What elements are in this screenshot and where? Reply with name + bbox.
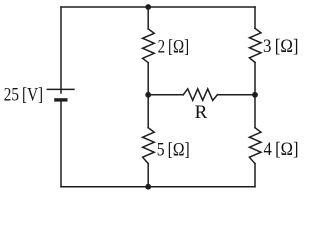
svg-text:4 [Ω]: 4 [Ω] bbox=[264, 139, 299, 160]
wire right vertical top segment bbox=[254, 7, 256, 28]
svg-text:5 [Ω]: 5 [Ω] bbox=[157, 140, 190, 161]
wire middle vertical mid segment bbox=[147, 63, 149, 128]
wire top horizontal bbox=[61, 6, 255, 8]
battery E positive plate (long thin) bbox=[47, 88, 75, 90]
svg-text:3 [Ω]: 3 [Ω] bbox=[263, 36, 299, 57]
wire middle row right segment bbox=[217, 94, 255, 96]
resistor 4 ohm zigzag bbox=[249, 128, 261, 164]
svg-text:R: R bbox=[195, 102, 208, 123]
wire middle row left segment bbox=[148, 94, 183, 96]
svg-text:25 [V]: 25 [V] bbox=[4, 84, 43, 105]
wire middle vertical bottom segment bbox=[147, 164, 149, 187]
wire left vertical upper (into battery) bbox=[60, 7, 62, 93]
resistor 5 ohm zigzag bbox=[143, 128, 155, 164]
wire bottom horizontal bbox=[61, 186, 255, 188]
node middle junction left bbox=[145, 92, 151, 98]
battery E negative plate (short thick) bbox=[54, 98, 67, 101]
resistor R zigzag bbox=[183, 89, 217, 101]
wire left vertical lower (from battery to bottom) bbox=[60, 102, 62, 187]
svg-text:2 [Ω]: 2 [Ω] bbox=[158, 37, 190, 58]
node top middle bbox=[145, 4, 151, 10]
node bottom middle bbox=[145, 184, 151, 190]
resistor 2 ohm zigzag bbox=[143, 29, 155, 63]
node middle junction right bbox=[252, 92, 258, 98]
wire right vertical mid segment bbox=[254, 62, 256, 127]
resistor 3 ohm zigzag bbox=[249, 28, 261, 62]
wire middle vertical top segment bbox=[147, 7, 149, 29]
wire right vertical bottom segment bbox=[254, 164, 256, 187]
